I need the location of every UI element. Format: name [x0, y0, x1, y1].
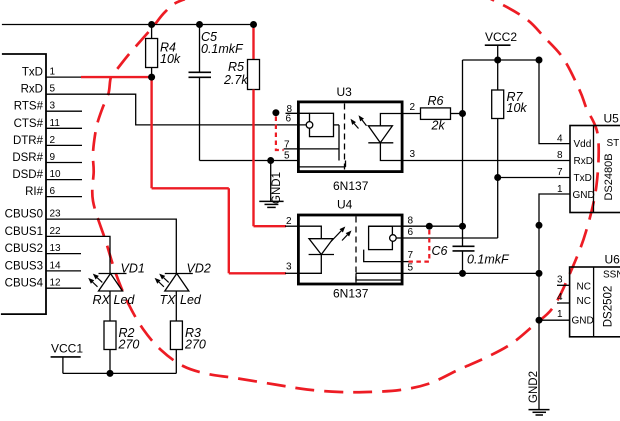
U3 LED anode wire	[380, 114, 403, 126]
svg-text:270: 270	[184, 338, 206, 352]
svg-text:SSN: SSN	[603, 270, 620, 281]
svg-text:U5: U5	[604, 112, 620, 126]
svg-text:3: 3	[557, 275, 563, 286]
svg-text:1: 1	[557, 309, 563, 320]
node VCC2 corner	[536, 57, 543, 64]
node gnd mystery	[536, 222, 543, 229]
svg-text:3: 3	[286, 261, 292, 272]
svg-text:8: 8	[557, 150, 563, 161]
svg-text:DS2480B: DS2480B	[603, 153, 615, 200]
svg-text:6N137: 6N137	[333, 287, 369, 301]
capacitor C5	[199, 25, 201, 73]
svg-text:6: 6	[50, 186, 56, 197]
svg-text:VD1: VD1	[121, 262, 145, 276]
svg-text:RxD: RxD	[574, 156, 593, 167]
svg-text:ST: ST	[607, 138, 620, 149]
wire red TxD to U4 pin3	[229, 272, 286, 274]
wire red TxD down	[150, 77, 152, 188]
wire RI# stub	[46, 196, 82, 198]
svg-text:3: 3	[50, 101, 56, 112]
svg-text:NC: NC	[577, 281, 591, 292]
svg-text:NC: NC	[577, 296, 591, 307]
node C6 bottom	[459, 270, 466, 277]
wire TxD stub	[46, 76, 83, 78]
svg-text:7: 7	[557, 167, 563, 178]
wire red R5 down	[252, 90, 254, 227]
resistor R3	[170, 321, 182, 350]
svg-text:2.7k: 2.7k	[223, 73, 248, 87]
node TxD R4 junction	[148, 74, 155, 81]
node VCC2 stem	[494, 57, 501, 64]
wire VCC2 vertical left	[462, 60, 464, 246]
wire CBUS4 stub	[46, 287, 81, 289]
svg-text:CTS#: CTS#	[14, 118, 44, 130]
svg-text:6: 6	[286, 114, 292, 125]
svg-text:270: 270	[118, 338, 140, 352]
wire CBUS1 to VD1	[46, 236, 110, 273]
node C6 top	[459, 223, 466, 230]
svg-text:GND1: GND1	[271, 172, 283, 204]
op-amp U3 optocoupler box	[298, 102, 402, 172]
svg-text:CBUS1: CBUS1	[5, 226, 43, 238]
svg-text:13: 13	[50, 243, 62, 254]
diode U3 LED	[368, 126, 392, 143]
node gnd pin5	[536, 270, 543, 277]
resistor R2	[104, 321, 116, 350]
svg-text:0.1mkF: 0.1mkF	[467, 252, 510, 266]
op-amp U4 optocoupler box	[298, 215, 402, 284]
U4 LED anode wire	[297, 226, 321, 239]
svg-text:1: 1	[50, 67, 56, 78]
svg-text:12: 12	[50, 278, 62, 289]
wire CBUS2 stub	[46, 253, 81, 255]
svg-text:RX: RX	[93, 293, 111, 307]
resistor R7	[497, 60, 499, 90]
svg-text:U4: U4	[337, 198, 353, 212]
svg-text:GND: GND	[573, 190, 595, 201]
wire DSR# stub	[46, 162, 82, 164]
svg-text:11: 11	[50, 118, 61, 129]
wire DTR# stub	[46, 144, 82, 146]
LED VD2	[165, 274, 189, 292]
svg-text:4: 4	[557, 133, 563, 144]
node top rail C5	[196, 21, 203, 28]
wire CBUS3 stub	[46, 270, 81, 272]
wire U4 pin5 gnd	[404, 272, 540, 274]
node VCC1 R2	[107, 370, 114, 377]
isolation boundary red dashed ellipse	[92, 0, 598, 392]
svg-text:23: 23	[50, 209, 62, 220]
svg-text:Led: Led	[180, 293, 202, 307]
svg-text:Vdd: Vdd	[574, 139, 592, 150]
wire RTS# stub	[46, 110, 82, 112]
node top rail R5	[250, 21, 257, 28]
node gnd U6	[536, 317, 543, 324]
wire TxD red to R4 node	[81, 76, 152, 78]
svg-text:RI#: RI#	[25, 186, 44, 198]
svg-text:RTS#: RTS#	[14, 101, 44, 113]
LED VD1	[99, 274, 123, 292]
VD1 arrows	[97, 278, 102, 283]
svg-text:8: 8	[408, 216, 414, 227]
U4 pin 7 inner	[364, 250, 404, 262]
U4 detector box	[369, 226, 393, 249]
svg-text:22: 22	[50, 226, 62, 237]
node TxD R7 junction	[494, 174, 501, 181]
wire red TxD down 2	[228, 188, 230, 273]
resistor R4	[151, 25, 153, 39]
svg-text:GND2: GND2	[528, 371, 540, 403]
svg-text:10k: 10k	[160, 52, 181, 66]
VD2 arrows	[164, 278, 169, 283]
wire GND1 net C5 to U3 pin5	[200, 160, 298, 162]
wire U5 GND down	[539, 194, 570, 410]
svg-text:Led: Led	[114, 293, 136, 307]
wire R7 to U4 pin6	[404, 237, 498, 239]
svg-text:1: 1	[557, 184, 563, 195]
U4 inner gnd line	[356, 273, 404, 280]
svg-text:9: 9	[50, 152, 56, 163]
capacitor C6	[453, 245, 475, 247]
svg-text:5: 5	[284, 151, 290, 162]
svg-text:2: 2	[286, 216, 292, 227]
U4 pin 6 wire	[396, 237, 403, 239]
svg-text:TxD: TxD	[574, 173, 592, 184]
svg-text:U6: U6	[605, 253, 620, 267]
svg-text:GND: GND	[572, 315, 594, 326]
svg-text:VD2: VD2	[187, 262, 211, 276]
chip U6 DS2502	[570, 267, 620, 337]
svg-text:5: 5	[408, 263, 414, 274]
ground GND1	[270, 161, 272, 202]
wire VCC top rail	[2, 24, 254, 26]
svg-text:6N137: 6N137	[333, 179, 369, 193]
svg-text:DS2502: DS2502	[603, 286, 615, 328]
U3 inner gnd line	[297, 166, 346, 168]
node R6 VCC junction	[459, 110, 466, 117]
svg-text:RxD: RxD	[21, 84, 43, 96]
svg-text:CBUS2: CBUS2	[5, 243, 43, 255]
U3 LED arrows	[362, 120, 366, 126]
wire DSD# stub	[46, 179, 82, 181]
svg-text:6: 6	[408, 227, 414, 238]
wire U3 pin3 to U5 RxD	[404, 160, 571, 162]
wire CTS# stub	[46, 127, 82, 129]
svg-text:3: 3	[410, 149, 416, 160]
ground GND2	[529, 409, 550, 411]
U3 detector box	[310, 113, 334, 136]
node GND1 junction	[267, 157, 274, 164]
wire VCC2 rail	[463, 59, 540, 61]
svg-text:TxD: TxD	[22, 67, 43, 79]
wire red dashed U3 enable	[276, 117, 284, 151]
U4 pin 8 wire	[369, 225, 463, 227]
node U3 enable dash anchor	[272, 109, 279, 116]
svg-text:10k: 10k	[507, 101, 528, 115]
svg-text:CBUS3: CBUS3	[5, 260, 43, 272]
svg-text:CBUS4: CBUS4	[5, 278, 44, 290]
chip U5 DS2480B	[570, 126, 620, 213]
svg-text:DSD#: DSD#	[12, 169, 43, 181]
svg-text:4: 4	[557, 292, 563, 303]
svg-text:VCC1: VCC1	[51, 342, 83, 356]
U4 LED arrows	[331, 231, 341, 242]
resistor R6	[404, 113, 421, 115]
svg-text:5: 5	[50, 84, 56, 95]
wire VCC2 to U5 Vdd	[539, 60, 570, 144]
svg-text:2: 2	[50, 135, 56, 146]
svg-text:14: 14	[50, 260, 62, 271]
resistor R5	[253, 25, 255, 34]
wire red R5 to U4 pin2	[254, 225, 287, 227]
U4 pin 7 stub	[404, 261, 410, 263]
svg-text:2k: 2k	[431, 119, 446, 133]
svg-text:TX: TX	[160, 293, 177, 307]
node top rail R4	[148, 21, 155, 28]
diode U4 LED	[309, 239, 333, 255]
svg-text:DTR#: DTR#	[13, 135, 44, 147]
wire VCC1 rail	[63, 372, 176, 374]
svg-text:C6: C6	[432, 244, 448, 258]
wire U5 TxD	[498, 177, 570, 179]
svg-text:U3: U3	[337, 85, 353, 99]
wire red TxD horizontal	[152, 187, 229, 189]
wire CBUS0 to VD2	[46, 219, 176, 273]
svg-text:DSR#: DSR#	[12, 152, 43, 164]
wire red dashed U4 enable	[409, 230, 430, 262]
svg-text:2: 2	[410, 102, 416, 113]
svg-text:0.1mkF: 0.1mkF	[201, 42, 244, 56]
svg-text:7: 7	[408, 250, 414, 261]
wire RxD to U3 pin6	[46, 94, 306, 125]
connector J1 (FT232 pins)	[1, 54, 46, 314]
node U4 pin8 dash anchor	[426, 223, 433, 230]
svg-text:VCC2: VCC2	[485, 30, 517, 44]
wire U4 pin3 stub	[285, 272, 297, 274]
svg-text:10: 10	[50, 169, 62, 180]
svg-text:R6: R6	[428, 94, 444, 108]
wire U4 pin2 stub	[285, 225, 297, 227]
svg-text:CBUS0: CBUS0	[5, 209, 43, 221]
